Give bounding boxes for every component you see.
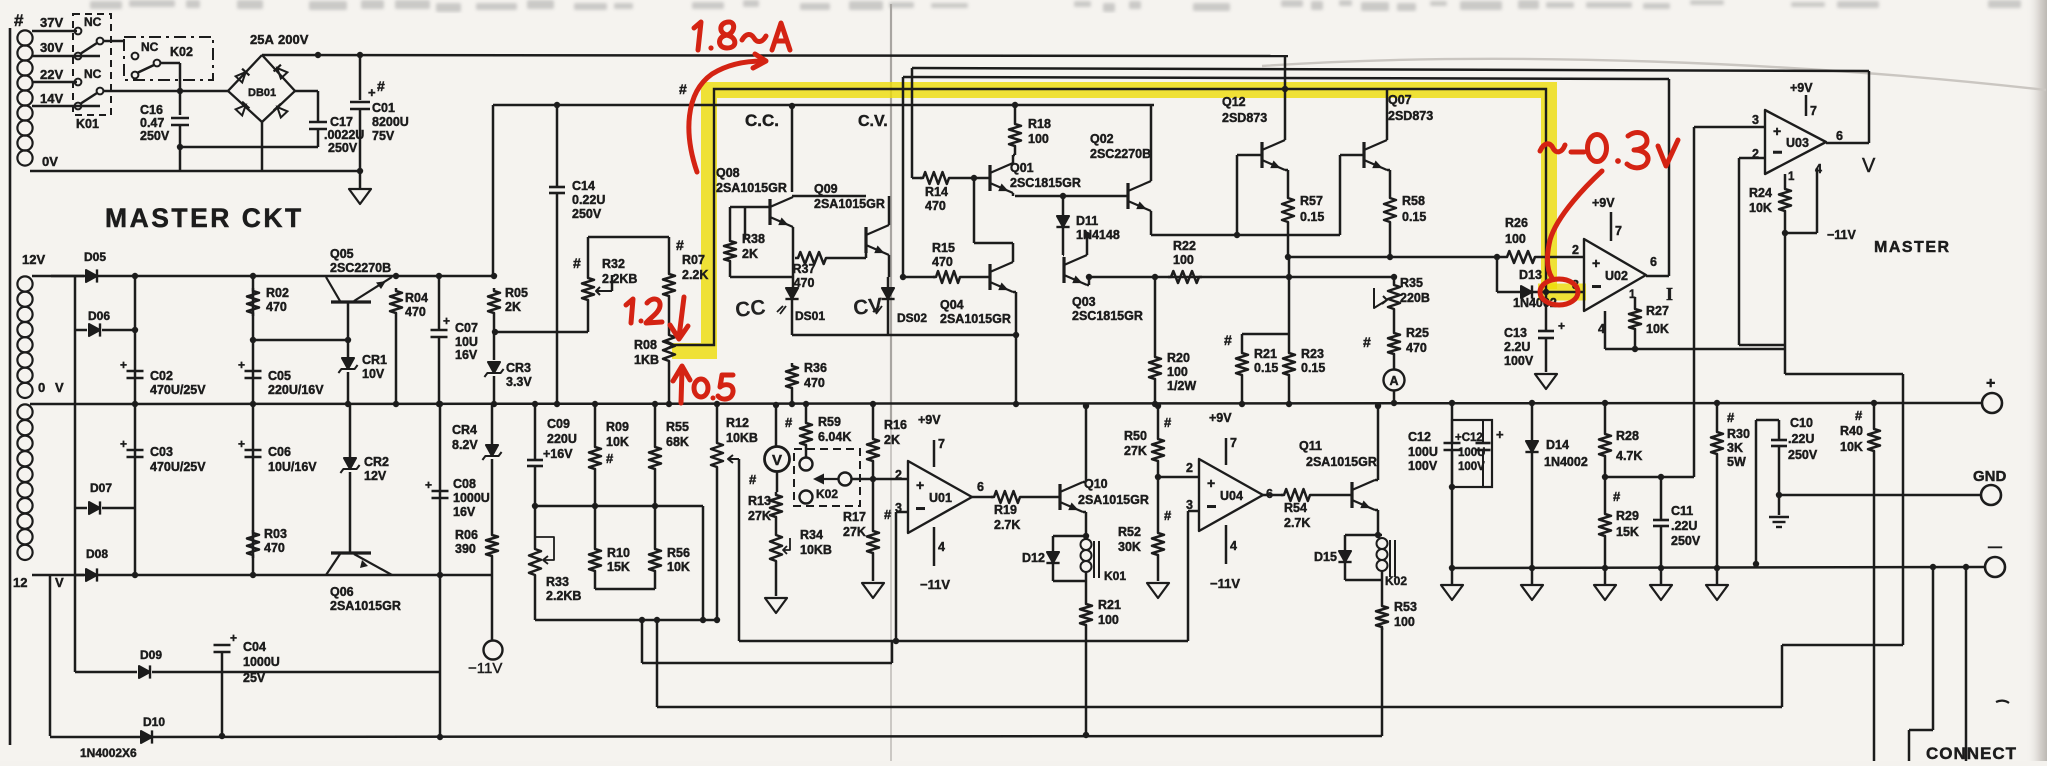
svg-text:390: 390 — [455, 542, 476, 556]
svg-text:2SD873: 2SD873 — [1222, 111, 1267, 125]
svg-text:2SD873: 2SD873 — [1388, 109, 1433, 123]
svg-text:25A: 25A — [250, 32, 274, 47]
svg-text:2.2U: 2.2U — [1504, 340, 1530, 354]
svg-text:2.7K: 2.7K — [1284, 516, 1310, 530]
svg-text:K01: K01 — [76, 117, 99, 131]
svg-text:2SC2270B: 2SC2270B — [330, 261, 391, 275]
svg-text:2.2K: 2.2K — [682, 268, 708, 282]
svg-text:1000U: 1000U — [243, 655, 280, 669]
svg-text:R13: R13 — [748, 494, 771, 508]
svg-text:R17: R17 — [843, 510, 866, 524]
svg-text:R55: R55 — [666, 420, 689, 434]
svg-text:#: # — [679, 81, 687, 97]
svg-text:D10: D10 — [143, 715, 165, 729]
svg-text:2K: 2K — [884, 433, 900, 447]
svg-text:C14: C14 — [572, 179, 595, 193]
svg-text:3: 3 — [1752, 113, 1759, 127]
svg-text:R29: R29 — [1616, 509, 1639, 523]
svg-text:D05: D05 — [84, 250, 106, 264]
svg-text:K01: K01 — [1104, 569, 1126, 583]
svg-text:+: + — [1592, 255, 1600, 271]
svg-text:C02: C02 — [150, 369, 173, 383]
svg-text:#: # — [1855, 408, 1863, 423]
svg-text:470U/25V: 470U/25V — [150, 383, 206, 397]
svg-text:16V: 16V — [455, 348, 478, 362]
svg-text:R37: R37 — [793, 262, 816, 276]
svg-text:C06: C06 — [268, 445, 291, 459]
svg-text:2.7K: 2.7K — [994, 518, 1020, 532]
svg-text:D14: D14 — [1546, 438, 1569, 452]
svg-text:68K: 68K — [666, 435, 689, 449]
svg-text:R08: R08 — [634, 338, 657, 352]
svg-text:R57: R57 — [1300, 194, 1323, 208]
svg-text:220U/16V: 220U/16V — [268, 383, 324, 397]
svg-text:V: V — [1862, 155, 1876, 177]
svg-text:2: 2 — [895, 468, 902, 482]
svg-text:R02: R02 — [266, 286, 289, 300]
svg-text:14V: 14V — [40, 91, 63, 106]
svg-text:2SC2270B: 2SC2270B — [1090, 147, 1151, 161]
svg-text:Q01: Q01 — [1010, 161, 1034, 175]
svg-text:R50: R50 — [1124, 429, 1147, 443]
svg-text:D09: D09 — [140, 648, 162, 662]
svg-text:250V: 250V — [1671, 534, 1701, 548]
svg-text:R23: R23 — [1301, 347, 1324, 361]
svg-text:R21: R21 — [1098, 598, 1121, 612]
svg-text:Q04: Q04 — [940, 298, 964, 312]
svg-text:Q05: Q05 — [330, 247, 354, 261]
svg-text:.22U: .22U — [1788, 432, 1814, 446]
svg-text:1N4002: 1N4002 — [1544, 455, 1588, 469]
svg-text:100V: 100V — [1458, 461, 1485, 473]
svg-text:R25: R25 — [1406, 326, 1429, 340]
svg-text:D08: D08 — [86, 547, 108, 561]
svg-text:#: # — [14, 11, 24, 30]
svg-text:Q07: Q07 — [1388, 93, 1412, 107]
svg-text:R16: R16 — [884, 418, 907, 432]
svg-text:R58: R58 — [1402, 194, 1425, 208]
svg-text:U02: U02 — [1605, 269, 1628, 283]
svg-text:#: # — [1164, 415, 1172, 430]
svg-text:R38: R38 — [742, 232, 765, 246]
svg-text:DS02: DS02 — [897, 311, 927, 325]
svg-text:6: 6 — [1836, 129, 1843, 143]
svg-text:Q06: Q06 — [330, 585, 354, 599]
svg-text:R30: R30 — [1727, 427, 1750, 441]
svg-text:#: # — [884, 507, 892, 522]
svg-text:1: 1 — [1788, 171, 1795, 183]
svg-text:−11V: −11V — [1210, 576, 1240, 591]
svg-text:10KB: 10KB — [800, 543, 832, 557]
svg-text:R15: R15 — [932, 241, 955, 255]
svg-text:R52: R52 — [1118, 525, 1141, 539]
svg-text:R36: R36 — [804, 361, 827, 375]
svg-text:R07: R07 — [682, 253, 705, 267]
svg-text:R24: R24 — [1749, 186, 1772, 200]
svg-text:R22: R22 — [1173, 239, 1196, 253]
svg-text:2SA1015GR: 2SA1015GR — [814, 197, 885, 211]
svg-text:R10: R10 — [607, 546, 630, 560]
svg-text:CONNECT: CONNECT — [1926, 744, 2017, 761]
svg-text:+: + — [1773, 123, 1781, 139]
svg-text:#: # — [749, 472, 757, 487]
svg-text:30V: 30V — [40, 40, 63, 55]
svg-text:250V: 250V — [328, 141, 358, 155]
svg-text:D11: D11 — [1076, 214, 1098, 228]
svg-text:V: V — [55, 575, 64, 590]
svg-text:R12: R12 — [726, 416, 749, 430]
svg-text:−11V: −11V — [920, 577, 950, 592]
svg-text:2SA1015GR: 2SA1015GR — [716, 181, 787, 195]
svg-text:2K: 2K — [742, 247, 758, 261]
svg-text:V: V — [772, 452, 782, 469]
svg-text:R04: R04 — [405, 291, 428, 305]
svg-text:+9V: +9V — [1592, 196, 1615, 210]
svg-text:10K: 10K — [667, 560, 690, 574]
svg-text:.0022U: .0022U — [324, 128, 364, 142]
svg-text:R14: R14 — [925, 185, 948, 199]
svg-text:#: # — [377, 78, 385, 94]
svg-text:12: 12 — [13, 575, 27, 590]
svg-text:0.15: 0.15 — [1300, 210, 1324, 224]
svg-text:C09: C09 — [547, 417, 570, 431]
svg-text:3K: 3K — [1727, 441, 1743, 455]
svg-text:C10: C10 — [1790, 416, 1813, 430]
svg-text:−11V: −11V — [468, 660, 502, 677]
svg-text:27K: 27K — [1124, 444, 1147, 458]
svg-text:10K: 10K — [1749, 201, 1772, 215]
svg-text:R40: R40 — [1840, 424, 1863, 438]
svg-text:C17: C17 — [330, 115, 353, 129]
svg-text:R53: R53 — [1394, 600, 1417, 614]
svg-text:C.V.: C.V. — [858, 113, 888, 130]
svg-text:NC: NC — [84, 67, 102, 81]
svg-text:7: 7 — [1615, 224, 1622, 238]
svg-text:10U: 10U — [455, 335, 478, 349]
svg-text:470: 470 — [932, 255, 953, 269]
svg-text:100U: 100U — [1408, 445, 1438, 459]
svg-text:NC: NC — [141, 40, 159, 54]
svg-text:16V: 16V — [453, 505, 476, 519]
svg-text:+: + — [443, 314, 450, 328]
svg-text:+: + — [916, 477, 924, 493]
svg-text:#: # — [676, 237, 684, 253]
svg-text:C01: C01 — [372, 101, 395, 115]
svg-text:0.47: 0.47 — [140, 116, 164, 130]
svg-text:+16V: +16V — [543, 447, 573, 461]
svg-text:K02: K02 — [170, 45, 193, 59]
svg-text:8200U: 8200U — [372, 115, 409, 129]
svg-text:3.3V: 3.3V — [506, 375, 532, 389]
svg-text:V: V — [55, 380, 64, 395]
svg-text:7: 7 — [1810, 104, 1817, 118]
svg-text:+9V: +9V — [918, 413, 941, 427]
svg-text:MASTER CKT: MASTER CKT — [105, 203, 304, 233]
svg-text:Q10: Q10 — [1084, 477, 1108, 491]
svg-text:0.15: 0.15 — [1254, 361, 1278, 375]
svg-text:+C12: +C12 — [1455, 432, 1483, 444]
svg-text:2: 2 — [1186, 461, 1193, 475]
svg-text:2.2KB: 2.2KB — [602, 272, 637, 286]
svg-text:DS01: DS01 — [795, 309, 825, 323]
svg-text:7: 7 — [938, 437, 945, 451]
svg-text:100: 100 — [1173, 253, 1194, 267]
svg-text:+9V: +9V — [1790, 81, 1813, 95]
svg-text:1/2W: 1/2W — [1167, 379, 1196, 393]
svg-text:100: 100 — [1028, 132, 1049, 146]
svg-text:+: + — [120, 437, 127, 451]
svg-text:R32: R32 — [602, 257, 625, 271]
svg-text:R54: R54 — [1284, 501, 1307, 515]
svg-text:4: 4 — [938, 540, 945, 554]
svg-text:1N4002X6: 1N4002X6 — [80, 746, 137, 760]
svg-text:100U: 100U — [1458, 447, 1486, 459]
svg-text:CR2: CR2 — [364, 455, 389, 469]
svg-text:+: + — [238, 358, 245, 372]
svg-text:100V: 100V — [1504, 354, 1534, 368]
svg-text:8.2V: 8.2V — [452, 438, 478, 452]
svg-text:R09: R09 — [606, 420, 629, 434]
svg-text:10KB: 10KB — [726, 431, 758, 445]
svg-text:D07: D07 — [90, 481, 112, 495]
svg-text:CR1: CR1 — [362, 353, 387, 367]
svg-text:12V: 12V — [364, 469, 387, 483]
svg-text:R03: R03 — [264, 527, 287, 541]
svg-text:220U: 220U — [547, 432, 577, 446]
svg-text:10V: 10V — [362, 367, 385, 381]
svg-text:250V: 250V — [140, 129, 170, 143]
svg-text:470: 470 — [925, 199, 946, 213]
svg-text:1000U: 1000U — [453, 491, 490, 505]
svg-text:15K: 15K — [607, 560, 630, 574]
svg-text:R33: R33 — [546, 575, 569, 589]
svg-text:12V: 12V — [22, 252, 45, 267]
svg-text:—: — — [1988, 538, 2002, 554]
svg-text:+: + — [1558, 319, 1565, 333]
svg-text:470: 470 — [1406, 341, 1427, 355]
svg-text:C16: C16 — [140, 103, 163, 117]
svg-text:R05: R05 — [505, 286, 528, 300]
svg-text:U01: U01 — [929, 491, 952, 505]
svg-text:C04: C04 — [243, 640, 266, 654]
svg-text:Q02: Q02 — [1090, 132, 1114, 146]
svg-text:15K: 15K — [1616, 525, 1639, 539]
svg-text:D12: D12 — [1022, 551, 1045, 565]
svg-text:#: # — [1164, 508, 1172, 523]
svg-text:27K: 27K — [843, 525, 866, 539]
svg-text:100: 100 — [1394, 615, 1415, 629]
svg-text:R35: R35 — [1400, 276, 1423, 290]
svg-text:Q12: Q12 — [1222, 95, 1246, 109]
svg-text:R59: R59 — [818, 415, 841, 429]
svg-text:CC: CC — [734, 296, 767, 322]
svg-text:C08: C08 — [453, 477, 476, 491]
svg-text:C13: C13 — [1504, 326, 1527, 340]
svg-text:100: 100 — [1167, 365, 1188, 379]
svg-text:470: 470 — [264, 541, 285, 555]
svg-text:2K: 2K — [505, 300, 521, 314]
svg-text:30K: 30K — [1118, 540, 1141, 554]
svg-text:#: # — [573, 255, 581, 271]
svg-text:5W: 5W — [1727, 455, 1746, 469]
svg-text:A: A — [1389, 374, 1398, 388]
svg-text:10K: 10K — [1840, 440, 1863, 454]
svg-text:K02: K02 — [1385, 574, 1407, 588]
svg-text:.22U: .22U — [1671, 519, 1697, 533]
svg-text:C07: C07 — [455, 321, 478, 335]
svg-text:470: 470 — [266, 300, 287, 314]
svg-text:CR3: CR3 — [506, 361, 531, 375]
svg-text:2: 2 — [1572, 243, 1579, 257]
svg-text:Q03: Q03 — [1072, 295, 1096, 309]
svg-text:+: + — [368, 85, 376, 100]
svg-text:7: 7 — [1230, 436, 1237, 450]
svg-text:10U/16V: 10U/16V — [268, 460, 317, 474]
svg-text:C05: C05 — [268, 369, 291, 383]
svg-text:K02: K02 — [816, 487, 838, 501]
svg-text:−11V: −11V — [1827, 228, 1857, 242]
svg-text:R56: R56 — [667, 546, 690, 560]
svg-text:R26: R26 — [1505, 216, 1528, 230]
svg-text:250V: 250V — [572, 207, 602, 221]
svg-text:0.15: 0.15 — [1301, 361, 1325, 375]
svg-text:100V: 100V — [1408, 459, 1438, 473]
svg-text:2SA1015GR: 2SA1015GR — [1306, 455, 1377, 469]
svg-text:+: + — [238, 437, 245, 451]
svg-text:250V: 250V — [1788, 448, 1818, 462]
svg-text:#: # — [1613, 489, 1621, 504]
svg-text:GND: GND — [1973, 468, 2007, 485]
svg-text:#: # — [1363, 334, 1371, 350]
svg-text:6: 6 — [1650, 255, 1657, 269]
svg-text:Q11: Q11 — [1299, 439, 1322, 453]
svg-text:#: # — [1727, 410, 1735, 425]
svg-text:R18: R18 — [1028, 117, 1051, 131]
svg-text:6.04K: 6.04K — [818, 430, 851, 444]
svg-text:C03: C03 — [150, 445, 173, 459]
svg-text:Q08: Q08 — [716, 166, 740, 180]
svg-text:37V: 37V — [40, 15, 63, 30]
svg-text:I: I — [1666, 284, 1673, 304]
svg-text:1KB: 1KB — [634, 353, 659, 367]
svg-text:75V: 75V — [372, 129, 395, 143]
svg-text:470: 470 — [804, 376, 825, 390]
svg-text:0.22U: 0.22U — [572, 193, 605, 207]
svg-text:2SA1015GR: 2SA1015GR — [1078, 493, 1149, 507]
svg-text:DB01: DB01 — [248, 87, 276, 99]
svg-text:4.7K: 4.7K — [1616, 449, 1642, 463]
svg-text:D06: D06 — [88, 309, 110, 323]
svg-text:2SA1015GR: 2SA1015GR — [330, 599, 401, 613]
svg-text:200V: 200V — [278, 32, 309, 47]
svg-text:1N4148: 1N4148 — [1076, 228, 1120, 242]
svg-text:0V: 0V — [42, 154, 58, 169]
svg-text:10K: 10K — [1646, 322, 1669, 336]
svg-text:+9V: +9V — [1209, 411, 1232, 425]
svg-text:U04: U04 — [1220, 489, 1243, 503]
svg-text:D13: D13 — [1519, 268, 1542, 282]
svg-text:470U/25V: 470U/25V — [150, 460, 206, 474]
svg-text:+: + — [120, 358, 127, 372]
svg-text:27K: 27K — [748, 509, 771, 523]
svg-text:2.2KB: 2.2KB — [546, 589, 581, 603]
svg-text:2SA1015GR: 2SA1015GR — [940, 312, 1011, 326]
svg-text:C11: C11 — [1671, 504, 1693, 518]
svg-text:22V: 22V — [40, 67, 63, 82]
svg-text:R28: R28 — [1616, 429, 1639, 443]
svg-text:R20: R20 — [1167, 351, 1190, 365]
svg-text:4: 4 — [1230, 539, 1237, 553]
svg-text:#: # — [785, 415, 793, 430]
svg-text:R27: R27 — [1646, 304, 1669, 318]
svg-text:NC: NC — [84, 15, 102, 29]
svg-text:Q09: Q09 — [814, 182, 838, 196]
svg-text:100: 100 — [1098, 613, 1119, 627]
svg-text:#: # — [1224, 332, 1232, 348]
svg-text:C12: C12 — [1408, 430, 1431, 444]
svg-text:R06: R06 — [455, 528, 478, 542]
svg-text:2SC1815GR: 2SC1815GR — [1010, 176, 1081, 190]
svg-text:100: 100 — [1505, 232, 1526, 246]
svg-text:#: # — [606, 451, 614, 466]
svg-text:0.15: 0.15 — [1402, 210, 1426, 224]
svg-text:+: + — [1496, 427, 1504, 442]
svg-text:10K: 10K — [606, 435, 629, 449]
svg-text:6: 6 — [977, 480, 984, 494]
svg-text:2SC1815GR: 2SC1815GR — [1072, 309, 1143, 323]
svg-text:+: + — [425, 478, 432, 492]
svg-text:R21: R21 — [1254, 347, 1277, 361]
svg-text:D15: D15 — [1314, 550, 1337, 564]
svg-text:0: 0 — [38, 380, 45, 395]
svg-text:+: + — [1207, 475, 1215, 491]
svg-text:+: + — [230, 631, 237, 645]
svg-text:470: 470 — [405, 305, 426, 319]
svg-text:R34: R34 — [800, 528, 823, 542]
svg-text:MASTER: MASTER — [1874, 239, 1951, 256]
svg-text:CR4: CR4 — [452, 423, 477, 437]
svg-text:+: + — [1986, 375, 1995, 392]
svg-text:220B: 220B — [1400, 291, 1430, 305]
svg-text:C.C.: C.C. — [745, 111, 779, 130]
svg-text:R19: R19 — [994, 503, 1017, 517]
svg-text:U03: U03 — [1786, 136, 1809, 150]
